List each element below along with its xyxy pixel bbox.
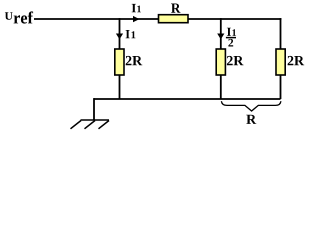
wire left 2R to ground bus bbox=[119, 75, 121, 99]
wire node A to resistor R bbox=[120, 18, 160, 20]
wire Uref to node A bbox=[34, 18, 120, 20]
resistor 2R (middle) bbox=[216, 49, 225, 75]
wire bus to ground bbox=[93, 98, 95, 120]
current arrow I1/2 (down, middle branch) bbox=[217, 34, 224, 40]
resistor R (series) bbox=[159, 15, 189, 23]
resistor 2R (right) bbox=[276, 49, 285, 75]
value label 2R (left) bbox=[126, 56, 143, 65]
resistor 2R (left) bbox=[115, 49, 124, 75]
wire node B down to middle 2R bbox=[220, 18, 222, 49]
brace marking R equivalent bbox=[221, 101, 281, 111]
wire middle 2R to ground bus bbox=[220, 75, 222, 99]
wire node B to top-right corner bbox=[221, 18, 281, 20]
wire resistor R to node B bbox=[188, 18, 221, 20]
label I1/2 fraction (middle branch) bbox=[226, 28, 236, 47]
current arrow I1 (down, left branch) bbox=[116, 34, 123, 40]
value label R (top) bbox=[171, 4, 180, 13]
node Uref label bbox=[5, 11, 33, 23]
ground bus wire bbox=[94, 98, 281, 100]
label I1 (left branch) bbox=[126, 30, 136, 38]
wire right 2R to ground bus bbox=[280, 75, 282, 99]
ground symbol bbox=[71, 120, 110, 129]
label R (equivalent, below brace) bbox=[246, 115, 256, 124]
value label 2R (right) bbox=[288, 56, 305, 65]
wire node A down to left 2R bbox=[119, 18, 121, 49]
label I1 (top) bbox=[132, 4, 141, 12]
current arrow I1 (rightward into R) bbox=[133, 16, 139, 22]
wire top-right corner down bbox=[280, 18, 282, 49]
value label 2R (middle) bbox=[227, 56, 244, 65]
